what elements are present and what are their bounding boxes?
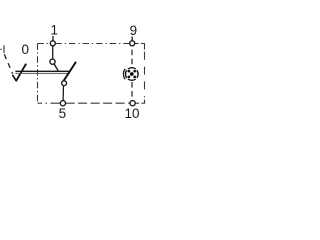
svg-text:10: 10 <box>124 106 139 121</box>
lever right thick arm <box>16 64 26 82</box>
lamp L: rim arc N <box>128 68 136 69</box>
link from pivot circle to bridge <box>54 64 58 71</box>
housing boundary bottom rail (dash-dot) <box>38 102 61 104</box>
pivot circle under terminal 1 <box>50 59 55 64</box>
lamp L: filament dot SE <box>133 76 136 79</box>
right contact circle <box>62 81 67 86</box>
housing boundary top rail (dash-dot) <box>38 43 51 45</box>
terminal 9 circle <box>130 41 135 46</box>
svg-text:5: 5 <box>59 106 67 121</box>
illumination wire 9 to lamp (dashed) <box>131 50 133 67</box>
illumination wire lamp to 10 (dashed) <box>131 82 133 100</box>
svg-text:9: 9 <box>130 23 138 38</box>
terminal 1 circle <box>50 41 55 46</box>
right contact lever (thick) <box>63 62 76 81</box>
terminal 10 circle <box>130 101 135 106</box>
svg-text:1: 1 <box>50 22 58 37</box>
lever left solid arm to vertex <box>12 75 16 81</box>
lamp L: filament dot NW <box>128 70 131 73</box>
housing boundary left side (dash-dot) <box>37 44 39 104</box>
rocker bridge upper line <box>15 70 69 72</box>
terminal 5 circle <box>60 101 65 106</box>
svg-text:0: 0 <box>21 42 29 57</box>
wire from terminal 1 circle down to pivot circle <box>52 46 54 59</box>
actuator stub at image edge <box>0 48 2 50</box>
lamp L: filament dot SW <box>128 76 131 79</box>
wire: lead from 9 label to terminal circle <box>131 37 133 41</box>
rocker bridge lower line <box>15 72 68 74</box>
housing boundary right side (dashed) <box>144 52 146 98</box>
lamp L: outer left arc <box>123 69 125 79</box>
lamp L: filament dot NE <box>133 70 136 73</box>
lamp L: rim arc E <box>137 70 138 78</box>
lamp L: rim arc S <box>128 79 136 80</box>
lamp L: center dot <box>130 72 134 76</box>
lamp L: rim arc W <box>125 70 126 78</box>
wire from contact circle down to terminal 5 <box>62 86 64 101</box>
wire: lead from 1 label to terminal circle <box>52 36 54 41</box>
actuator tick mark <box>3 45 5 53</box>
actuator dashed arm (position 0) <box>4 54 12 74</box>
